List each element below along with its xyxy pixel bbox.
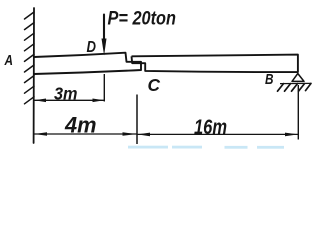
dimension line 3m: [34, 99, 104, 101]
pin support at B: [292, 74, 304, 82]
svg-text:16m: 16m: [194, 116, 227, 139]
wall hatching: [25, 12, 35, 104]
dimension line 4m: [34, 133, 137, 135]
svg-text:P= 20ton: P= 20ton: [108, 8, 177, 30]
load arrow P at D: [103, 15, 105, 43]
beam AC (left segment): [34, 53, 141, 74]
ground line at B: [280, 82, 311, 84]
svg-text:A: A: [4, 53, 13, 69]
beam CB (right segment): [132, 55, 298, 72]
svg-text:4m: 4m: [64, 113, 96, 138]
ground hatching at B: [278, 83, 312, 91]
svg-text:B: B: [265, 72, 274, 88]
extension line below B: [297, 85, 299, 140]
dimension line 16m: [137, 133, 298, 135]
fixed support wall at A: [33, 8, 35, 143]
extension line below C: [136, 95, 138, 145]
svg-text:D: D: [87, 39, 97, 56]
svg-text:C: C: [148, 75, 161, 95]
extension line below D: [103, 74, 105, 102]
svg-text:3m: 3m: [54, 84, 78, 104]
scanner artifact cyan dashes: [128, 146, 284, 149]
